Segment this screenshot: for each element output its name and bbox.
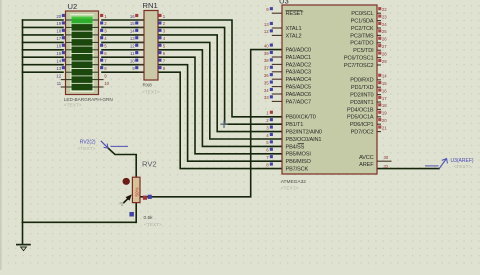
wire: RN1 pin 7 staircase to U3 PB6: [158, 65, 282, 162]
U3 left pin state squares: [270, 7, 273, 166]
svg-text:29: 29: [382, 59, 387, 64]
wire: ground bus vertical: [22, 20, 24, 222]
svg-text:PA6/ADC6: PA6/ADC6: [286, 92, 311, 98]
svg-text:XTAL1: XTAL1: [286, 26, 302, 32]
wire: ground stub down: [22, 222, 24, 244]
wire: U2 pin 5 to RN1 pin 12: [102, 49, 144, 51]
svg-text:16: 16: [382, 88, 387, 93]
svg-text:21: 21: [382, 125, 387, 130]
svg-text:PC7/TOSC2: PC7/TOSC2: [344, 63, 374, 69]
svg-text:14: 14: [130, 29, 135, 34]
wire: RN1 pin 8 staircase to U3 PB7: [158, 72, 282, 168]
svg-text:13: 13: [264, 22, 269, 27]
potentiometer RV2 body: [132, 177, 140, 202]
svg-text:22: 22: [382, 7, 387, 12]
U3 PB4/SS overline: [298, 143, 305, 145]
svg-text:XTAL2: XTAL2: [286, 33, 302, 39]
U3 left pin numbers: [264, 7, 269, 167]
svg-text:37: 37: [264, 66, 269, 71]
svg-text:0.5k: 0.5k: [144, 215, 154, 221]
U3 left inner pin labels: [286, 11, 322, 172]
U2 left pin state squares: [62, 14, 65, 69]
wire: RV2 bottom pin to ground bus: [135, 203, 137, 223]
svg-text:ATMEGA32: ATMEGA32: [281, 179, 307, 185]
svg-text:<TEXT>: <TEXT>: [454, 164, 472, 170]
svg-text:12: 12: [130, 44, 135, 49]
net label U3(AREF) arrow glyph: [425, 159, 447, 169]
svg-text:12: 12: [264, 29, 269, 34]
wire: U3 AREF to net label: [377, 168, 439, 170]
wire: RN1 pin 1 staircase to U3 PB0: [158, 20, 282, 117]
svg-text:10: 10: [104, 81, 109, 86]
wire: U2 pin 2 to RN1 pin 15: [102, 26, 144, 28]
svg-text:PC5/TDI: PC5/TDI: [353, 48, 374, 54]
wire: U2 pin 6 to RN1 pin 11: [102, 56, 144, 58]
svg-text:RESET: RESET: [286, 11, 305, 17]
RN1 right pin numbers 1-8: [163, 14, 166, 71]
RN1 left pin numbers 16-9: [130, 14, 135, 71]
svg-text:35: 35: [264, 80, 269, 85]
wire: U2 pin 13 cathode stub to bus: [23, 71, 64, 73]
svg-text:20: 20: [382, 118, 387, 123]
svg-text:<TEXT>: <TEXT>: [78, 146, 96, 152]
U3 left pin stubs: [272, 13, 282, 101]
svg-text:13: 13: [130, 36, 135, 41]
svg-text:PC4/TDO: PC4/TDO: [350, 41, 374, 47]
wire: RN1 pin 6 staircase to U3 PB5: [158, 57, 282, 154]
svg-text:10: 10: [130, 59, 135, 64]
U3 right pin stubs: [377, 13, 392, 161]
wire: U2 pin 17 cathode stub to bus: [23, 41, 64, 43]
svg-text:PD5/OC1A: PD5/OC1A: [347, 115, 374, 121]
svg-text:50%: 50%: [135, 187, 140, 196]
RV2 wiper pin state square (blue): [148, 195, 152, 199]
U3 RESET overline: [286, 9, 303, 11]
svg-text:26: 26: [382, 37, 387, 42]
wire: RN1 pin 4 staircase to U3 PB3: [158, 42, 282, 139]
svg-text:PC1/SDA: PC1/SDA: [351, 19, 374, 25]
svg-text:PD1/TXD: PD1/TXD: [351, 85, 374, 91]
svg-text:39: 39: [264, 51, 269, 56]
svg-text:RX8: RX8: [143, 83, 153, 89]
U3 right inner pin labels: [344, 11, 374, 168]
wire: U2 pin 15 cathode stub to bus: [23, 56, 64, 58]
svg-text:14: 14: [382, 74, 387, 79]
svg-text:PD2/INT0: PD2/INT0: [350, 93, 373, 99]
svg-text:<TEXT>: <TEXT>: [64, 103, 82, 109]
wire: U2 pin 16 cathode stub to bus: [23, 49, 64, 51]
microcontroller U3 body: [282, 5, 377, 174]
wire: RN1 pin 3 staircase to U3 PB2: [158, 35, 282, 132]
svg-text:23: 23: [382, 14, 387, 19]
svg-text:PA4/ADC4: PA4/ADC4: [286, 77, 311, 83]
RN1 left pin state squares: [135, 14, 138, 69]
wire: RN1 pin 5 staircase to U3 PB4: [158, 50, 282, 147]
svg-text:PD7/OC2: PD7/OC2: [351, 130, 374, 136]
wire: U2 pin 1 to RN1 pin 16: [102, 19, 144, 21]
svg-text:RV2(2): RV2(2): [80, 140, 96, 146]
svg-text:PD4/OC1B: PD4/OC1B: [347, 107, 374, 113]
svg-text:28: 28: [382, 51, 387, 56]
wire: U2 pin 14 cathode stub to bus: [23, 64, 64, 66]
svg-text:AREF: AREF: [359, 162, 374, 168]
RV2 bottom pin state square: [129, 212, 134, 217]
svg-text:27: 27: [382, 44, 387, 49]
wire: RV2 top pin to RV2(2) net label: [108, 148, 136, 177]
RV2 interactive knob dot: [123, 178, 130, 185]
svg-text:36: 36: [264, 73, 269, 78]
svg-text:PA2/ADC2: PA2/ADC2: [286, 62, 311, 68]
svg-text:19: 19: [56, 21, 61, 26]
svg-text:17: 17: [56, 36, 61, 41]
svg-text:13: 13: [56, 66, 61, 71]
svg-text:PB4/SS: PB4/SS: [286, 144, 305, 150]
RN1 left pin stubs: [138, 20, 144, 72]
svg-text:PD0/RXD: PD0/RXD: [350, 78, 373, 84]
svg-text:<TEXT>: <TEXT>: [142, 90, 160, 96]
svg-text:14: 14: [56, 59, 61, 64]
svg-text:PD3/INT1: PD3/INT1: [350, 100, 373, 106]
U2 right pin state squares: [100, 14, 103, 69]
LED bargraph U2: [66, 11, 99, 95]
wire: U2 pin 8 to RN1 pin 9: [102, 71, 144, 73]
wire: U2 pin 20 cathode stub to bus: [23, 19, 64, 21]
svg-text:PB5/MOSI: PB5/MOSI: [286, 152, 312, 158]
wire: U2 pin 4 to RN1 pin 13: [102, 41, 144, 43]
svg-text:38: 38: [264, 58, 269, 63]
svg-text:18: 18: [56, 29, 61, 34]
svg-text:PB0/XCK/T0: PB0/XCK/T0: [286, 115, 316, 121]
RV2 adjust marks: [120, 203, 124, 206]
svg-text:RV2: RV2: [142, 160, 157, 169]
svg-text:PC6/TOSC1: PC6/TOSC1: [344, 56, 374, 62]
svg-text:U2: U2: [68, 2, 78, 11]
svg-text:16: 16: [130, 14, 135, 19]
wire: ground bus bottom horizontal: [23, 221, 137, 223]
svg-text:16: 16: [56, 44, 61, 49]
U2 left pin numbers 20-11: [56, 14, 61, 86]
svg-text:PB1/T1: PB1/T1: [286, 122, 304, 128]
svg-text:15: 15: [382, 81, 387, 86]
svg-text:12: 12: [56, 73, 61, 78]
svg-text:34: 34: [264, 88, 269, 93]
svg-text:40: 40: [264, 43, 269, 48]
svg-text:19: 19: [382, 111, 387, 116]
svg-text:15: 15: [56, 51, 61, 56]
svg-text:18: 18: [382, 103, 387, 108]
U2 right pin numbers 1-10: [104, 14, 109, 86]
svg-text:PB2/INT2/AIN0: PB2/INT2/AIN0: [286, 130, 322, 136]
svg-text:11: 11: [130, 51, 135, 56]
svg-text:U3: U3: [279, 0, 289, 5]
ground symbol: [16, 245, 31, 251]
svg-text:RN1: RN1: [143, 1, 158, 10]
svg-text:PB7/SCK: PB7/SCK: [286, 167, 309, 173]
svg-text:PC2/TCK: PC2/TCK: [351, 26, 374, 32]
U3 right pin numbers: [382, 7, 389, 169]
U3 right pin state squares: [378, 7, 381, 129]
svg-text:32: 32: [384, 164, 389, 169]
svg-text:<TEXT>: <TEXT>: [281, 186, 299, 192]
svg-text:LED-BARGRAPH-GRN: LED-BARGRAPH-GRN: [64, 97, 113, 102]
svg-text:25: 25: [382, 29, 387, 34]
wire: RN1 pin 2 staircase to U3 PB1: [158, 27, 282, 124]
wire: U2 pin 7 to RN1 pin 10: [102, 64, 144, 66]
svg-text:24: 24: [382, 22, 387, 27]
RV2 wiper pin state square (red): [143, 196, 147, 200]
RN1 right pin state squares: [158, 14, 161, 69]
svg-text:PC0/SCL: PC0/SCL: [351, 11, 373, 17]
svg-text:PA0/ADC0: PA0/ADC0: [286, 48, 311, 54]
U2 left dangling pin stubs 12,11: [61, 80, 66, 87]
wire: U2 pin 18 cathode stub to bus: [23, 34, 64, 36]
net label RV2(2) arrow glyph: [101, 141, 128, 148]
svg-text:PC3/TMS: PC3/TMS: [350, 33, 374, 39]
svg-text:11: 11: [57, 81, 62, 86]
svg-text:30: 30: [384, 155, 389, 160]
svg-text:PA3/ADC3: PA3/ADC3: [286, 70, 311, 76]
svg-text:PD6/ICP1: PD6/ICP1: [350, 122, 374, 128]
resistor network RN1: [144, 11, 158, 81]
wire: U2 pin 19 cathode stub to bus: [23, 26, 64, 28]
wire: U2 pin 3 to RN1 pin 14: [102, 34, 144, 36]
wire: RV2 wiper to U3 PA0: [140, 50, 282, 197]
svg-text:PB6/MISO: PB6/MISO: [286, 159, 312, 165]
svg-text:PA1/ADC1: PA1/ADC1: [286, 55, 311, 61]
svg-text:PA5/ADC5: PA5/ADC5: [286, 85, 311, 91]
svg-text:17: 17: [382, 96, 387, 101]
mouse cursor crosshair: [220, 121, 227, 128]
svg-text:<TEXT>: <TEXT>: [144, 222, 162, 228]
svg-text:33: 33: [264, 95, 269, 100]
RV2 wiper arrow: [123, 195, 131, 204]
svg-text:PA7/ADC7: PA7/ADC7: [286, 99, 311, 105]
svg-text:PB3/OC0/AIN1: PB3/OC0/AIN1: [286, 137, 322, 143]
svg-text:20: 20: [56, 14, 61, 19]
U2 right dangling pin stubs 9,10: [99, 80, 104, 87]
svg-text:AVCC: AVCC: [359, 155, 374, 161]
svg-text:U3(AREF): U3(AREF): [451, 158, 474, 164]
svg-text:15: 15: [130, 21, 135, 26]
